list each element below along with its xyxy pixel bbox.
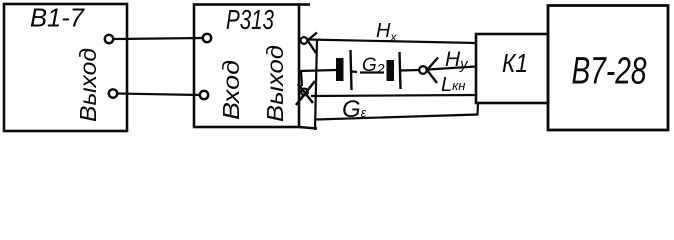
svg-text:Lкн: Lкн (441, 74, 465, 96)
connector pin fork < (427, 58, 438, 84)
bottom wire Р313 to К1 (316, 104, 478, 120)
terminal (Р313 input hi) (203, 34, 211, 42)
connector pin C2 (thin line) (400, 52, 401, 89)
svg-text:Ну: Ну (445, 48, 469, 73)
svg-text:К1: К1 (502, 48, 528, 78)
terminal (В1-7 output hi) (105, 35, 113, 43)
wire to К1 middle (428, 67, 476, 70)
Р313 top edge overshoot (299, 3, 310, 6)
svg-text:Р313: Р313 (226, 4, 274, 35)
svg-text:Выход: Выход (75, 48, 101, 122)
svg-text:Выход: Выход (262, 45, 288, 122)
connector plate C2 (thick bar) (387, 60, 395, 81)
voltmeter box В7-28 (548, 6, 668, 131)
svg-text:В7-28: В7-28 (572, 51, 647, 93)
wire В1-7 to Р313 top (114, 38, 204, 39)
relay/switch box К1 (476, 34, 548, 103)
instrument box Р313 (194, 5, 299, 128)
svg-text:В1-7: В1-7 (30, 3, 86, 33)
svg-text:Вход: Вход (218, 60, 244, 120)
branch wire vertical (315, 40, 317, 130)
instrument box В1-7 (generator) (4, 4, 127, 131)
connector plate C1 (thick bar) (336, 58, 344, 81)
terminal (Р313 input lo) (200, 91, 208, 99)
wire Gε (311, 95, 477, 96)
Р313 bottom edge overshoot (299, 127, 317, 129)
svg-text:Нх: Нх (376, 20, 397, 44)
wire middle segment (299, 70, 336, 71)
wire Нх (Р313 to К1) (308, 40, 477, 44)
clamp terminal ✕ with circle (Р313 output lo) (301, 89, 308, 96)
connector socket-pin on Р313 output hi (o<) (301, 37, 308, 44)
stub to clamp terminal (301, 71, 302, 86)
terminal (В1-7 output lo) (109, 89, 117, 97)
wire C2 to connector (401, 69, 419, 72)
connector pin C1 (thin line) (351, 50, 352, 90)
wire stub after C1 (352, 70, 357, 73)
connector socket o (419, 66, 427, 74)
wire В1-7 to Р313 bottom (118, 94, 201, 96)
